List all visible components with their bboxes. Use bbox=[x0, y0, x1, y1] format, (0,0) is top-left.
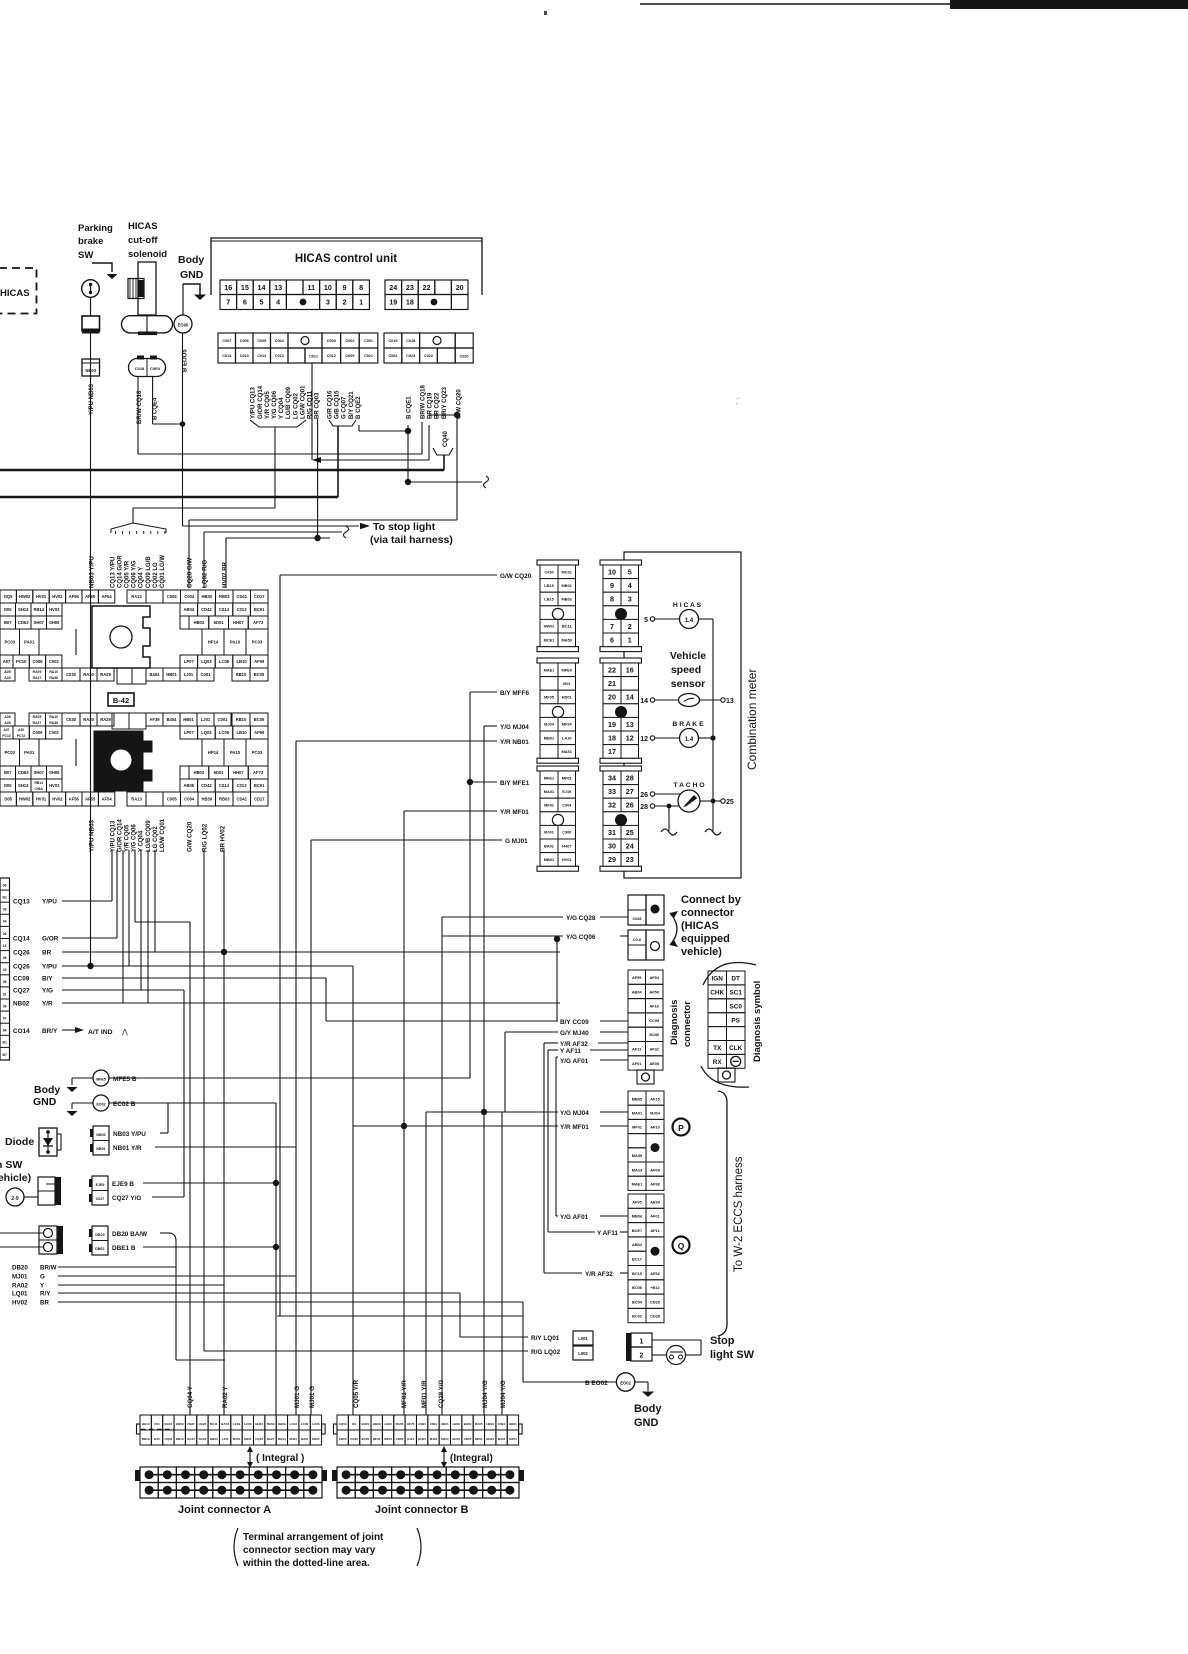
svg-text:CQ02 LG: CQ02 LG bbox=[153, 562, 159, 588]
svg-text:MJ01: MJ01 bbox=[12, 1274, 28, 1281]
wire NB02 Y/R bbox=[13, 850, 560, 1008]
svg-text:C011: C011 bbox=[309, 355, 318, 359]
svg-text:AF52: AF52 bbox=[650, 1271, 660, 1276]
svg-text:Terminal arrangement of joint: Terminal arrangement of joint bbox=[243, 1532, 384, 1543]
svg-text:Body: Body bbox=[34, 1084, 60, 1096]
svg-text:BR: BR bbox=[40, 1300, 49, 1307]
svg-text:CQ05 Y/R: CQ05 Y/R bbox=[125, 560, 131, 588]
svg-text:LA10: LA10 bbox=[562, 735, 572, 740]
funnel CQ40 bbox=[433, 430, 453, 470]
svg-text:33: 33 bbox=[608, 787, 616, 796]
svg-text:CC09: CC09 bbox=[13, 976, 30, 983]
svg-text:CD29: CD29 bbox=[650, 1299, 661, 1304]
svg-text:CB05: CB05 bbox=[396, 1437, 404, 1441]
wire CQ28 vertical bbox=[441, 917, 443, 1415]
svg-text:A57: A57 bbox=[3, 659, 11, 664]
svg-text:19: 19 bbox=[608, 720, 616, 729]
svg-text:G: G bbox=[40, 1274, 45, 1281]
wire parking brake label arrow bbox=[92, 263, 118, 279]
svg-text:AF11: AF11 bbox=[650, 1228, 660, 1233]
tachometer bbox=[640, 782, 734, 831]
svg-text:LJ01: LJ01 bbox=[222, 1437, 229, 1441]
wire Y/R AF32 label bbox=[544, 1271, 628, 1278]
wire NB03 vertical bbox=[90, 334, 92, 967]
svg-text:RA30: RA30 bbox=[83, 717, 94, 722]
grid2 center plate black bbox=[94, 731, 152, 791]
svg-text:C001: C001 bbox=[201, 672, 212, 677]
svg-text:C030: C030 bbox=[544, 569, 553, 574]
svg-text:AF54: AF54 bbox=[102, 594, 113, 599]
connect by connector arrows bbox=[670, 911, 678, 947]
svg-text:C005: C005 bbox=[167, 796, 178, 801]
svg-text:MAE1: MAE1 bbox=[632, 1182, 644, 1187]
svg-text:PC03: PC03 bbox=[252, 750, 263, 755]
wire pin11 vertical bbox=[311, 363, 313, 460]
svg-text:2: 2 bbox=[343, 298, 347, 307]
svg-text:HV03: HV03 bbox=[49, 607, 60, 612]
label diagnosis symbol bbox=[752, 981, 763, 1062]
svg-text:RA02: RA02 bbox=[12, 1283, 28, 1290]
svg-text:vehicle): vehicle) bbox=[681, 946, 722, 958]
svg-text:MJ40: MJ40 bbox=[649, 1032, 659, 1037]
svg-text:R/G LQ02: R/G LQ02 bbox=[531, 1349, 561, 1356]
svg-text:NB01 Y/R: NB01 Y/R bbox=[113, 1145, 142, 1152]
svg-text:1.4: 1.4 bbox=[685, 737, 694, 743]
svg-text:MJ04 Y/G: MJ04 Y/G bbox=[482, 1380, 489, 1408]
svg-text:Y/G CQ06: Y/G CQ06 bbox=[566, 934, 596, 941]
grid1 top labels bbox=[89, 555, 229, 588]
svg-text:RB14: RB14 bbox=[278, 1437, 286, 1441]
svg-text:LC09: LC09 bbox=[233, 1422, 241, 1426]
svg-text:CQ28 Y/G: CQ28 Y/G bbox=[438, 1379, 445, 1408]
svg-text:H407: H407 bbox=[562, 843, 571, 848]
svg-text:DB20: DB20 bbox=[95, 1233, 104, 1237]
svg-text:connector: connector bbox=[682, 1001, 693, 1047]
funnel group2 bbox=[329, 420, 356, 497]
svg-text:B15: B15 bbox=[154, 1437, 160, 1441]
svg-text:LG/W CQ01: LG/W CQ01 bbox=[299, 385, 306, 419]
svg-text:RA02 Y: RA02 Y bbox=[222, 1386, 229, 1408]
label to stop light bbox=[370, 521, 453, 546]
svg-text:HB03: HB03 bbox=[373, 1422, 381, 1426]
svg-text:BC15: BC15 bbox=[632, 1271, 643, 1276]
svg-text:25: 25 bbox=[726, 799, 734, 806]
svg-text:25: 25 bbox=[626, 828, 634, 837]
svg-text:PA01: PA01 bbox=[24, 640, 35, 645]
svg-text:LQ02 R/G: LQ02 R/G bbox=[202, 560, 209, 588]
svg-text:LC05: LC05 bbox=[219, 659, 230, 664]
svg-text:BC05: BC05 bbox=[632, 1285, 643, 1290]
svg-text:RA05: RA05 bbox=[475, 1422, 483, 1426]
svg-text:HH07: HH07 bbox=[233, 770, 244, 775]
svg-text:+B12: +B12 bbox=[650, 1285, 660, 1290]
svg-text:AF01: AF01 bbox=[650, 1214, 660, 1219]
HICAS cut-off solenoid label bbox=[128, 221, 167, 260]
svg-text:CHK: CHK bbox=[710, 990, 724, 997]
svg-text:HV03: HV03 bbox=[49, 783, 60, 788]
label integral B bbox=[441, 1446, 493, 1468]
svg-text:Stop: Stop bbox=[710, 1335, 735, 1347]
svg-text:MJ04: MJ04 bbox=[544, 722, 555, 727]
svg-text:CQ13 Y/PU: CQ13 Y/PU bbox=[111, 557, 117, 588]
grid1 center plate bbox=[92, 606, 150, 668]
svg-text:cut-off: cut-off bbox=[128, 235, 158, 246]
svg-text:PC03: PC03 bbox=[252, 640, 263, 645]
svg-text:RA12: RA12 bbox=[131, 594, 142, 599]
svg-text:CQ04 Y: CQ04 Y bbox=[139, 567, 145, 588]
svg-text:HB03: HB03 bbox=[210, 1437, 218, 1441]
wire B/Y vertical 470 bbox=[469, 692, 471, 1078]
svg-text:R/G LQ02: R/G LQ02 bbox=[202, 823, 209, 852]
svg-text:09: 09 bbox=[3, 1004, 7, 1008]
wire CQ18 to solenoid bbox=[138, 377, 422, 455]
wire HV02 BR low bbox=[12, 1300, 523, 1382]
svg-text:CQ20 G/W: CQ20 G/W bbox=[187, 558, 194, 588]
svg-text:G/Y MJ40: G/Y MJ40 bbox=[560, 1030, 589, 1037]
svg-text:G/OR CQ14: G/OR CQ14 bbox=[118, 819, 124, 852]
svg-text:LQ03: LQ03 bbox=[201, 659, 212, 664]
svg-text:SC0: SC0 bbox=[729, 1003, 742, 1010]
wire G/W CQ20 meter bbox=[280, 573, 532, 1316]
svg-text:GND: GND bbox=[33, 1096, 57, 1108]
svg-text:C009: C009 bbox=[32, 659, 43, 664]
svg-text:MA51: MA51 bbox=[562, 749, 573, 754]
svg-text:C005: C005 bbox=[257, 339, 266, 343]
svg-text:RA13: RA13 bbox=[131, 796, 142, 801]
svg-text:HB01: HB01 bbox=[166, 672, 177, 677]
svg-text:HW02: HW02 bbox=[19, 796, 31, 801]
svg-text:MCE1: MCE1 bbox=[544, 637, 556, 642]
svg-text:EJE9 B: EJE9 B bbox=[112, 1181, 134, 1188]
svg-text:LB15: LB15 bbox=[544, 596, 554, 601]
svg-text:C004: C004 bbox=[184, 796, 195, 801]
svg-text:C0E1: C0E1 bbox=[498, 1422, 506, 1426]
svg-text:MJ04: MJ04 bbox=[441, 1437, 449, 1441]
SW vehicle symbol bbox=[6, 1177, 61, 1206]
svg-text:B EO02: B EO02 bbox=[585, 1380, 608, 1387]
svg-text:AF32: AF32 bbox=[649, 1047, 659, 1052]
svg-text:P: P bbox=[678, 1123, 684, 1133]
svg-text:08: 08 bbox=[3, 956, 7, 960]
svg-text:20: 20 bbox=[456, 283, 464, 292]
body GND label top bbox=[178, 254, 204, 281]
svg-text:BR/Y: BR/Y bbox=[42, 1028, 58, 1035]
svg-text:G/OR: G/OR bbox=[42, 936, 59, 943]
svg-text:MFE1: MFE1 bbox=[544, 775, 555, 780]
svg-text:Y AF11: Y AF11 bbox=[597, 1230, 618, 1237]
svg-text:7: 7 bbox=[610, 622, 614, 631]
svg-text:14: 14 bbox=[640, 698, 648, 705]
svg-text:1: 1 bbox=[359, 298, 363, 307]
svg-text:MB01: MB01 bbox=[544, 735, 555, 740]
svg-text:Y/G AF01: Y/G AF01 bbox=[560, 1058, 589, 1065]
svg-text:AF98: AF98 bbox=[650, 1182, 660, 1187]
svg-text:LG/B CQ09: LG/B CQ09 bbox=[146, 820, 152, 852]
svg-text:6: 6 bbox=[243, 298, 247, 307]
svg-text:Y/G: Y/G bbox=[42, 988, 53, 995]
note terminal arrangement bbox=[234, 1528, 421, 1569]
svg-text:PS: PS bbox=[731, 1017, 740, 1024]
svg-text:Y/R MF01: Y/R MF01 bbox=[560, 1124, 589, 1131]
svg-text:LC05: LC05 bbox=[219, 730, 230, 735]
svg-text:RB19: RB19 bbox=[142, 1437, 150, 1441]
svg-text:CO14: CO14 bbox=[13, 1028, 30, 1035]
svg-text:C027: C027 bbox=[96, 1197, 105, 1201]
funnel split to grid bbox=[111, 523, 166, 534]
wire CQ20 route to grid bbox=[189, 415, 457, 588]
svg-text:A/T IND: A/T IND bbox=[88, 1029, 113, 1036]
svg-text:Diagnosis: Diagnosis bbox=[669, 1000, 680, 1045]
svg-text:I01: I01 bbox=[352, 1422, 357, 1426]
svg-text:LJ01: LJ01 bbox=[201, 717, 211, 722]
svg-text:R/Y: R/Y bbox=[40, 1291, 51, 1298]
svg-text:31: 31 bbox=[3, 992, 7, 996]
svg-text:CD28: CD28 bbox=[650, 1314, 661, 1319]
svg-text:8: 8 bbox=[610, 595, 614, 604]
svg-text:HV02: HV02 bbox=[12, 1300, 28, 1307]
svg-text:LC03: LC03 bbox=[312, 1422, 320, 1426]
svg-text:LB15: LB15 bbox=[544, 583, 554, 588]
svg-text:vehicle): vehicle) bbox=[0, 1172, 31, 1184]
page top edge bar bbox=[544, 0, 1188, 406]
svg-text:MJ01 G: MJ01 G bbox=[309, 1386, 316, 1408]
svg-text:07: 07 bbox=[3, 1017, 7, 1021]
svg-text:solenoid: solenoid bbox=[128, 249, 167, 260]
svg-text:B/Y CQ21: B/Y CQ21 bbox=[348, 391, 355, 419]
svg-text:17: 17 bbox=[608, 747, 616, 756]
wire MJ01 G low bbox=[12, 1274, 296, 1281]
svg-text:CQ04 Y: CQ04 Y bbox=[187, 1385, 194, 1408]
svg-text:SH13: SH13 bbox=[18, 783, 29, 788]
svg-text:MJ04 Y/G: MJ04 Y/G bbox=[500, 1380, 507, 1408]
svg-text:R/Y LQ01: R/Y LQ01 bbox=[531, 1335, 560, 1342]
svg-text:RA38: RA38 bbox=[49, 721, 58, 725]
svg-text:EO02: EO02 bbox=[96, 1103, 105, 1107]
wires diagnosis labels bbox=[326, 936, 628, 1273]
meter harness connector stack 1 bbox=[537, 560, 579, 652]
wire B to tail harness bbox=[408, 476, 489, 488]
svg-text:HB01: HB01 bbox=[509, 1422, 517, 1426]
wire Y AF11 label bbox=[548, 1230, 628, 1237]
svg-text:1: 1 bbox=[628, 636, 632, 645]
svg-text:NB03 Y/PU: NB03 Y/PU bbox=[89, 556, 96, 588]
svg-text:Combination meter: Combination meter bbox=[745, 669, 759, 770]
svg-text:Connect by: Connect by bbox=[681, 894, 742, 906]
svg-text:24: 24 bbox=[389, 283, 397, 292]
label body GND bottom bbox=[634, 1403, 662, 1429]
svg-text:14: 14 bbox=[626, 693, 634, 702]
svg-text:6D01: 6D01 bbox=[214, 620, 225, 625]
svg-text:MF91: MF91 bbox=[544, 802, 555, 807]
svg-text:RA10: RA10 bbox=[49, 715, 58, 719]
wire DB20 BR/W low bbox=[12, 1265, 225, 1415]
svg-text:Y CQ04: Y CQ04 bbox=[278, 397, 285, 419]
svg-text:L001: L001 bbox=[578, 1336, 588, 1341]
wire CQ27 Y/G bbox=[13, 988, 184, 1197]
svg-text:8: 8 bbox=[359, 283, 363, 292]
svg-text:19: 19 bbox=[389, 298, 397, 307]
svg-text:G/B CQ15: G/B CQ15 bbox=[334, 390, 341, 419]
svg-text:B R A K E: B R A K E bbox=[672, 721, 704, 728]
parking brake SW label bbox=[78, 223, 113, 261]
svg-text:CQ09 LG/B: CQ09 LG/B bbox=[146, 556, 152, 588]
svg-text:HICAS control unit: HICAS control unit bbox=[295, 253, 397, 265]
connector strip C019 C018 row1 bbox=[384, 333, 473, 348]
svg-text:CQ27: CQ27 bbox=[13, 988, 30, 995]
svg-text:RA09: RA09 bbox=[33, 715, 42, 719]
svg-text:18: 18 bbox=[608, 734, 616, 743]
svg-text:BC25: BC25 bbox=[362, 1437, 370, 1441]
svg-text:SH07: SH07 bbox=[34, 620, 45, 625]
svg-text:C003: C003 bbox=[327, 339, 336, 343]
svg-text:Y/PU NB03: Y/PU NB03 bbox=[89, 383, 95, 415]
svg-text:CQ05 Y/R: CQ05 Y/R bbox=[353, 1379, 360, 1408]
vehicle speed sensor bbox=[640, 650, 734, 707]
svg-text:C013: C013 bbox=[222, 354, 231, 358]
svg-text:CB05: CB05 bbox=[464, 1437, 472, 1441]
svg-text:BC25: BC25 bbox=[452, 1437, 460, 1441]
funnel group1 bbox=[250, 420, 306, 508]
svg-text:HICAS: HICAS bbox=[128, 221, 158, 232]
svg-text:H I C A S: H I C A S bbox=[673, 602, 702, 609]
svg-text:CQ27 Y/G: CQ27 Y/G bbox=[112, 1195, 141, 1202]
svg-text:BCE7: BCE7 bbox=[632, 1228, 642, 1233]
svg-text:7: 7 bbox=[226, 298, 230, 307]
svg-text:32: 32 bbox=[608, 801, 616, 810]
wire DBE1 B bbox=[112, 1103, 279, 1415]
svg-text:Y/R AF32: Y/R AF32 bbox=[560, 1041, 588, 1048]
svg-text:MA13: MA13 bbox=[632, 1167, 643, 1172]
svg-text:BR/W: BR/W bbox=[40, 1265, 57, 1272]
svg-text:27: 27 bbox=[626, 787, 634, 796]
ground EO02 mid bbox=[67, 1095, 277, 1116]
joint labels A bbox=[187, 1385, 316, 1408]
connector strip C081-C020 row2 bbox=[384, 348, 473, 363]
svg-text:Y/R: Y/R bbox=[42, 1001, 53, 1008]
svg-text:C030: C030 bbox=[66, 672, 77, 677]
svg-text:LB03: LB03 bbox=[384, 1422, 392, 1426]
svg-text:CD63: CD63 bbox=[18, 620, 29, 625]
svg-text:5: 5 bbox=[260, 298, 264, 307]
svg-text:MF24: MF24 bbox=[562, 722, 573, 727]
wire BR CQ03 vertical bbox=[314, 419, 320, 541]
diagnosis symbol parens bbox=[701, 963, 756, 1088]
svg-text:HB01: HB01 bbox=[441, 1422, 449, 1426]
svg-text:CQ14: CQ14 bbox=[13, 936, 30, 943]
wire G MJ01 meter bbox=[311, 838, 528, 1415]
svg-text:HV02: HV02 bbox=[52, 594, 63, 599]
svg-text:G MJ01: G MJ01 bbox=[505, 838, 528, 845]
svg-text:MF01 Y/R: MF01 Y/R bbox=[421, 1380, 428, 1408]
svg-text:D05: D05 bbox=[4, 607, 12, 612]
svg-text:HB09: HB09 bbox=[278, 1422, 286, 1426]
svg-text:PC10: PC10 bbox=[2, 734, 10, 738]
svg-text:05: 05 bbox=[3, 980, 7, 984]
svg-text:CB05: CB05 bbox=[339, 1437, 347, 1441]
wire EJE9 B bbox=[112, 1180, 279, 1188]
svg-text:C0-6: C0-6 bbox=[633, 938, 641, 942]
svg-text:3: 3 bbox=[628, 595, 632, 604]
grid2 link lines bbox=[75, 739, 77, 766]
grid2 bottom labels bbox=[89, 818, 227, 852]
svg-text:C300: C300 bbox=[562, 830, 571, 835]
joint labels B bbox=[353, 1379, 507, 1408]
svg-text:MB01: MB01 bbox=[562, 583, 573, 588]
svg-text:16: 16 bbox=[224, 283, 232, 292]
svg-text:RB14: RB14 bbox=[176, 1437, 184, 1441]
svg-text:C304: C304 bbox=[562, 802, 572, 807]
connector CQ28 bbox=[442, 895, 664, 925]
svg-text:MAE1: MAE1 bbox=[544, 667, 556, 672]
wire Y/G MJ04 meter bbox=[484, 724, 529, 1415]
wire CQE2 to CQE1 bbox=[359, 425, 411, 434]
svg-text:23: 23 bbox=[626, 855, 634, 864]
svg-text:LB03: LB03 bbox=[453, 1422, 461, 1426]
svg-text:21: 21 bbox=[608, 679, 616, 688]
svg-text:To stop light: To stop light bbox=[373, 521, 436, 533]
svg-text:MJ01: MJ01 bbox=[301, 1437, 309, 1441]
svg-text:EC02 B: EC02 B bbox=[113, 1101, 136, 1108]
svg-text:LQ03: LQ03 bbox=[201, 730, 212, 735]
svg-text:MJ01: MJ01 bbox=[289, 1437, 297, 1441]
svg-text:Y/R NB01: Y/R NB01 bbox=[500, 739, 529, 746]
svg-text:Y/R CQ05: Y/R CQ05 bbox=[264, 391, 271, 419]
svg-text:NB02: NB02 bbox=[13, 1001, 30, 1008]
svg-text:Y/G MJ04: Y/G MJ04 bbox=[560, 1110, 589, 1117]
svg-text:B/Y MFE1: B/Y MFE1 bbox=[500, 780, 530, 787]
svg-text:AF59: AF59 bbox=[632, 975, 642, 980]
label joint connector A bbox=[178, 1504, 271, 1516]
svg-text:LC09: LC09 bbox=[301, 1422, 309, 1426]
svg-text:SH13: SH13 bbox=[18, 607, 29, 612]
svg-text:26: 26 bbox=[3, 932, 7, 936]
svg-text:C007: C007 bbox=[222, 339, 231, 343]
svg-text:20: 20 bbox=[608, 693, 616, 702]
svg-text:C002: C002 bbox=[49, 730, 60, 735]
svg-text:RX: RX bbox=[713, 1059, 723, 1066]
svg-text:Y/PU: Y/PU bbox=[42, 964, 57, 971]
svg-text:G CQ07: G CQ07 bbox=[341, 396, 348, 419]
joint connector B terminals bbox=[332, 1467, 524, 1498]
circled P bbox=[673, 1119, 690, 1136]
svg-text:B EOO5: B EOO5 bbox=[183, 349, 189, 372]
svg-text:C014: C014 bbox=[257, 354, 267, 358]
svg-text:23: 23 bbox=[406, 283, 414, 292]
label BR/W CQ18 bbox=[137, 390, 143, 424]
svg-text:13: 13 bbox=[626, 720, 634, 729]
stop light SW connector bbox=[626, 1333, 652, 1361]
svg-text:Y/G MJ04: Y/G MJ04 bbox=[500, 724, 529, 731]
svg-text:SH07: SH07 bbox=[34, 770, 45, 775]
svg-text:AF55: AF55 bbox=[85, 594, 96, 599]
svg-text:C0E4: C0E4 bbox=[150, 366, 161, 371]
svg-text:LP07: LP07 bbox=[184, 659, 195, 664]
HICAS control unit pin row lower bbox=[220, 295, 468, 310]
svg-text:B CQE2: B CQE2 bbox=[355, 396, 362, 419]
svg-text:LQ01: LQ01 bbox=[12, 1291, 28, 1298]
svg-text:CQ04: CQ04 bbox=[255, 1437, 263, 1441]
svg-text:AF54: AF54 bbox=[102, 796, 113, 801]
svg-text:HICAS: HICAS bbox=[0, 288, 30, 299]
svg-text:RB03: RB03 bbox=[219, 594, 230, 599]
svg-text:HD01: HD01 bbox=[562, 694, 573, 699]
svg-text:HB09: HB09 bbox=[176, 1422, 184, 1426]
svg-text:28: 28 bbox=[626, 774, 634, 783]
bracket to W2 ECCS harness bbox=[718, 1091, 727, 1336]
svg-text:PA10: PA10 bbox=[230, 640, 241, 645]
svg-text:RA37: RA37 bbox=[33, 721, 42, 725]
svg-text:C012: C012 bbox=[327, 354, 336, 358]
